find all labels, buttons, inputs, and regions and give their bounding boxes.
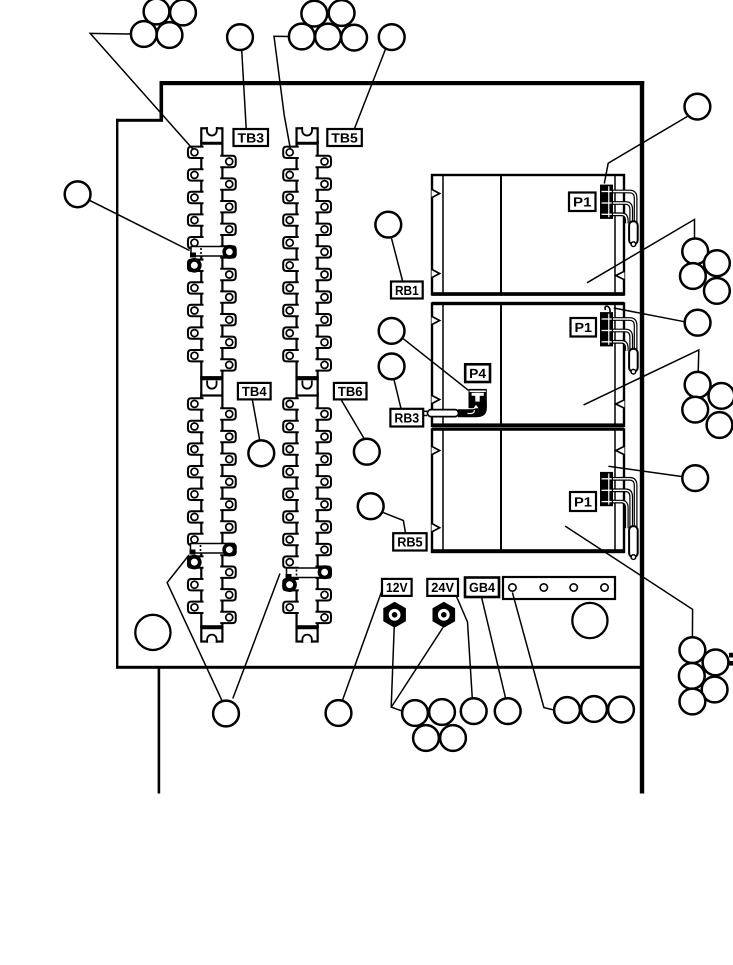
svg-text:P1: P1: [574, 494, 592, 509]
leader line TB6 label to circle: [341, 400, 364, 439]
callout circle (P1 top): [685, 94, 711, 120]
callout circle cluster (relay2) d: [707, 412, 733, 438]
callout circle cluster (TB5 terminals) b: [329, 0, 355, 26]
callout circle cluster (TB5 terminals) c: [289, 24, 315, 50]
label RB5: [393, 533, 426, 550]
leader line GB4 label to circle: [482, 597, 506, 699]
connector P1 (middle relay): [611, 319, 636, 351]
relay RB3 housing top double line: [432, 302, 624, 305]
relay RB3 housing: [432, 304, 624, 427]
svg-text:12V: 12V: [386, 580, 408, 595]
jumper wire on TB6: [284, 567, 330, 590]
callout circle cluster (TB3 terminals) b: [170, 0, 196, 25]
leader line circle to TB3 jumper: [87, 199, 190, 251]
callout circle cluster (posts) a: [402, 700, 428, 726]
callout circle (RB5): [358, 493, 384, 519]
callout circle cluster (posts) d: [440, 725, 466, 751]
12V binding post: [383, 602, 406, 628]
leader line P1 middle plug to circle: [614, 308, 685, 322]
leader line circle to P1 top plug: [604, 117, 687, 184]
chassis left edge top stub: [160, 81, 164, 119]
callout circle (24V label): [461, 698, 487, 724]
callout circle (P1 middle): [685, 310, 711, 336]
callout circle cluster (relay3) a: [680, 637, 706, 663]
leader line TB6 jumper to bottom circle: [233, 574, 280, 699]
leader line TB4 label to circle: [252, 400, 259, 441]
leader line RB1 circle to label: [391, 237, 402, 281]
leader line to TB5 top terminal (callout cluster 2): [274, 36, 290, 148]
connector P1 label box (top): [569, 193, 596, 212]
callout circle cluster (relay2) a: [685, 372, 711, 398]
mounting panel bottom edge: [116, 666, 644, 669]
callout circle (RB3): [379, 354, 405, 380]
callout circle (TB3 jumper): [65, 181, 91, 207]
svg-text:P1: P1: [573, 195, 592, 210]
leader line relay1 to callout cluster: [587, 219, 695, 282]
leader line 12V post to circle cluster: [391, 628, 402, 712]
callout circle cluster (TB5 terminals) e: [341, 25, 367, 51]
leader line circle to TB3 label: [242, 50, 247, 129]
relay RB1 housing: [432, 175, 624, 295]
callout circle cluster (GB4 strip) a: [554, 697, 580, 723]
callout circle cluster (TB3 terminals) d: [157, 22, 183, 48]
callout circle cluster (relay3) c: [679, 663, 705, 689]
relay RB5 housing bottom double line: [432, 549, 624, 552]
label 12V: [382, 579, 412, 596]
relay RB3 housing bottom double line: [432, 423, 624, 426]
24V binding post: [433, 602, 456, 628]
callout circle cluster (relay2) b: [709, 383, 733, 409]
label TB3: [234, 129, 269, 146]
callout circle (12V label): [326, 700, 352, 726]
connector P4 cable elbow: [458, 402, 487, 417]
callout circle cluster (TB5 terminals) a: [301, 1, 327, 27]
relay RB5 housing: [432, 430, 624, 553]
chassis left edge lower segment: [158, 668, 161, 794]
callout circle cluster (posts) b: [429, 699, 455, 725]
leader line relay3 to callout cluster: [565, 526, 692, 637]
callout circle (GB4 label): [495, 698, 521, 724]
callout circle cluster (relay1) b: [704, 250, 730, 276]
callout circle cluster (TB3 terminals) c: [131, 21, 157, 47]
svg-text:P1: P1: [575, 320, 593, 335]
svg-text:TB3: TB3: [238, 130, 265, 145]
callout circle (RB1): [375, 212, 401, 238]
label RB3: [390, 409, 423, 427]
connector P1 (top relay): [611, 192, 636, 224]
connector P1 label box (middle): [571, 318, 597, 337]
svg-text:TB4: TB4: [242, 384, 267, 399]
leader line 12V label to circle: [341, 591, 382, 704]
svg-text:TB5: TB5: [331, 130, 358, 145]
callout circle (TB6 label): [354, 439, 380, 465]
connector P4 plug body: [469, 389, 487, 408]
callout circle cluster (TB5 terminals) d: [315, 24, 341, 50]
leader line RB5 circle to label: [383, 513, 405, 533]
callout circle (P4): [379, 318, 405, 344]
chassis right edge: [640, 81, 644, 794]
leader line relay2 to callout cluster: [584, 350, 699, 405]
terminal board TB3 and TB4 strip (left column): [188, 127, 236, 643]
callout circle (TB3 label): [227, 24, 253, 50]
jumper wire on TB3: [189, 247, 235, 271]
chassis top edge: [160, 81, 645, 85]
svg-text:RB5: RB5: [397, 535, 422, 550]
svg-text:24V: 24V: [431, 580, 454, 595]
callout circle cluster (relay3) d: [702, 677, 728, 703]
callout circle cluster (relay1) c: [680, 263, 706, 289]
callout circle cluster (GB4 strip) c: [608, 697, 634, 723]
connector P4 label box: [465, 364, 490, 382]
callout circle cluster (posts) c: [413, 725, 439, 751]
edge mark upper: [729, 653, 733, 658]
relay RB5 housing top double line: [432, 428, 624, 431]
leader line P1 bottom plug to circle: [608, 466, 682, 476]
leader line TB4 jumper to bottom circle: [167, 555, 222, 700]
label 24V: [427, 579, 458, 596]
edge mark lower: [729, 661, 733, 666]
connector P1 (bottom relay): [611, 479, 636, 528]
callout circle cluster (GB4 strip) b: [581, 696, 607, 722]
label GB4: [465, 578, 499, 598]
label TB5: [327, 129, 362, 146]
leader line P4 circle to plug: [403, 338, 469, 390]
svg-text:RB1: RB1: [395, 283, 419, 298]
callout circle cluster (TB3 terminals) a: [144, 0, 170, 24]
panel hole (lower left): [135, 615, 170, 650]
svg-text:TB6: TB6: [338, 384, 363, 399]
callout circle (TB4/TB6 jumpers): [213, 701, 239, 727]
mounting panel left edge: [116, 119, 118, 669]
leader line 24V post to circle cluster: [391, 628, 443, 708]
panel hole (lower right): [572, 603, 607, 638]
ground block GB4 terminal strip: [503, 577, 615, 599]
jumper wire on TB4: [189, 544, 235, 568]
callout circle cluster (relay3) e: [680, 689, 706, 715]
svg-text:P4: P4: [469, 366, 486, 381]
leader line circle to TB5 label: [355, 48, 386, 128]
leader line GB4 strip to circle cluster: [512, 592, 554, 710]
label RB1: [391, 282, 423, 299]
connector P4 cable tube: [428, 410, 459, 417]
svg-text:RB3: RB3: [394, 410, 419, 425]
callout circle cluster (relay1) d: [704, 278, 730, 304]
leader line RB3 circle to label: [394, 379, 401, 409]
callout circle cluster (relay3) b: [703, 650, 729, 676]
label TB6: [334, 383, 367, 400]
callout circle (TB5 label): [379, 24, 405, 50]
terminal board TB5 and TB6 strip (right column): [283, 127, 331, 643]
callout circle cluster (relay2) c: [682, 397, 708, 423]
callout circle (P1 bottom): [682, 465, 708, 491]
leader line to TB3 top terminal (callout cluster 1): [90, 33, 193, 149]
leader line 24V label to circle: [457, 597, 473, 699]
relay RB1 housing bottom double line: [432, 292, 624, 296]
label TB4: [238, 383, 271, 400]
callout circle cluster (relay1) a: [682, 239, 708, 265]
mounting panel top edge stub: [116, 119, 163, 122]
connector P1 label box (bottom): [570, 492, 596, 511]
callout circle (TB4 label): [248, 440, 274, 466]
svg-text:GB4: GB4: [469, 580, 496, 595]
